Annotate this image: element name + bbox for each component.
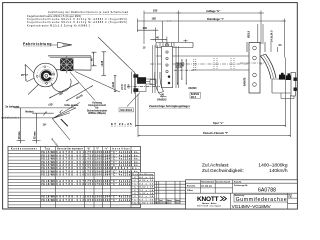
label 8A0623 [157, 92, 167, 102]
angle dimension 25deg [21, 64, 34, 82]
Bewegungsrichtung diagonal label [50, 119, 70, 157]
svg-text:≈135: ≈135 [100, 60, 104, 66]
svg-text:≈ 52 mm: ≈ 52 mm [33, 131, 36, 141]
title block small labels [187, 181, 293, 199]
revision table [154, 181, 185, 204]
dimension approx135 vertical [100, 52, 106, 76]
svg-text:Ø185: Ø185 [124, 83, 127, 90]
front view: axle tube band [37, 56, 92, 70]
wheel hub flange circle [34, 63, 58, 87]
vertical dim 24.5 rotated [263, 24, 274, 44]
table row lines [8, 151, 141, 205]
dimension 50x50 diagonal [66, 86, 93, 102]
travel diagram: loaded line [5, 105, 76, 109]
svg-text:8A0520: 8A0520 [189, 87, 198, 90]
svg-text:4.5J x 13: 4.5J x 13 [139, 179, 153, 182]
SH10991 label [119, 108, 134, 112]
svg-text:Zul.Gechwindigkeit:: Zul.Gechwindigkeit: [202, 168, 244, 174]
label 8A0520 small [189, 87, 198, 90]
wire hub lower leader [28, 85, 39, 95]
svg-text:Bearb.Anf.: Bearb.Anf. [187, 185, 196, 188]
svg-text:“C”: “C” [132, 199, 138, 201]
svg-text:8A0623: 8A0623 [157, 98, 167, 102]
svg-text:Ø18.5: Ø18.5 [247, 30, 251, 38]
Achtung note block [87, 101, 107, 115]
svg-text:133: 133 [143, 26, 148, 30]
svg-text:5.5J x 15: 5.5J x 15 [139, 203, 153, 205]
note block: bolt variants [27, 11, 129, 27]
svg-text:Spur “c”: Spur “c” [213, 121, 224, 125]
svg-text:Ø1.5: Ø1.5 [191, 97, 197, 99]
subtitle VG14MV-VG18MV [232, 204, 272, 209]
table data rows [41, 151, 139, 202]
svg-text:Zweireihige Schrägkugellager: Zweireihige Schrägkugellager [149, 104, 191, 108]
dimension Spur c [136, 121, 286, 126]
svg-text:“C”: “C” [132, 196, 138, 198]
travel diagram base ticks [17, 139, 41, 141]
dimension 40 [150, 35, 167, 40]
travel diagram rays and arcs [44, 102, 81, 126]
svg-text:1600: 1600 [95, 174, 103, 177]
svg-text:“C”: “C” [132, 203, 138, 205]
extension lines bottom dims [136, 58, 291, 138]
svg-text:≈ 90 mm: ≈ 90 mm [18, 131, 21, 141]
svg-text:bitte genau: bitte genau [65, 103, 79, 107]
svg-text:Gezeichn.Geprüft: Gezeichn.Geprüft [216, 181, 231, 184]
title block [186, 180, 298, 209]
svg-text:6A0788: 6A0788 [258, 187, 276, 193]
svg-text:Kopie-Nr.: Kopie-Nr. [234, 182, 242, 184]
svg-text:“b”: “b” [87, 148, 91, 150]
dimension 40 rear [160, 94, 167, 97]
title Gummifederachse [236, 197, 287, 203]
svg-text:“C”: “C” [132, 177, 138, 179]
angle 19 label [43, 123, 47, 127]
border frame [3, 3, 298, 209]
svg-text:Name: Name [175, 203, 180, 205]
main data table [8, 146, 141, 207]
svg-text:Gummifederachse: Gummifederachse [236, 197, 287, 203]
svg-text:1850: 1850 [85, 199, 94, 202]
travel diagram: unloaded line [2, 115, 54, 119]
side view part number rotated [244, 77, 247, 86]
wire SH10991 leader [127, 93, 140, 107]
svg-text:25°±7: 25°±7 [21, 73, 28, 77]
svg-text:1 Bl.: 1 Bl. [288, 197, 292, 199]
rear view mounting bracket plate [162, 46, 173, 87]
svg-text:280Nm (28kpm): 280Nm (28kpm) [88, 112, 106, 115]
svg-text:Rad: Rad [132, 174, 138, 176]
svg-text:Datum: Datum [166, 199, 172, 202]
dimension Flansch-Flansch f [138, 131, 291, 136]
svg-text:Zeichnungs-Nr.: Zeichnungs-Nr. [234, 185, 248, 187]
swing arm boss circle (front view) [52, 79, 72, 92]
svg-text:4J x 13: 4J x 13 [139, 176, 153, 179]
svg-text:24.5±14.5: 24.5±14.5 [270, 30, 274, 42]
svg-text:1464: 1464 [103, 199, 111, 202]
side view centerline [240, 62, 264, 64]
Fahrtrichtung label [23, 42, 52, 46]
extension lines top dims [137, 11, 284, 58]
drawing number label [234, 185, 248, 187]
KNOTT logo [197, 196, 227, 207]
ET 22-35 label [111, 122, 132, 126]
svg-text:6J x 14: 6J x 14 [139, 195, 153, 198]
svg-text:≈33°: ≈33° [48, 103, 53, 107]
svg-text:1400: 1400 [95, 199, 103, 202]
svg-text:Ausführung: Ausführung [139, 173, 153, 176]
svg-text:1684: 1684 [103, 174, 111, 177]
svg-text:SH10991: SH10991 [120, 109, 133, 112]
dimension 15 [143, 46, 146, 50]
travel diagram: Vorlast line [25, 110, 54, 114]
svg-text:97.09.19: 97.09.19 [201, 184, 212, 188]
svg-text:“C”: “C” [132, 183, 138, 185]
svg-text:Kundennummer: Kundennummer [11, 148, 37, 150]
rear view tube end lines [153, 45, 179, 93]
svg-text:1784: 1784 [103, 183, 111, 186]
svg-text:ø140: ø140 [112, 81, 115, 87]
Zul.Achslast note [202, 162, 288, 168]
hub rubber element ring [40, 69, 54, 82]
svg-text:Zul.Achslast:: Zul.Achslast: [202, 162, 229, 168]
table header text [11, 147, 130, 150]
title box [234, 194, 288, 202]
svg-text:2050: 2050 [85, 174, 94, 177]
svg-text:unbelasteten: unbelasteten [2, 115, 20, 119]
svg-text:Ø84: Ø84 [128, 83, 131, 88]
leader to section detail [75, 72, 120, 93]
dimension row 182 / Rohrlaenge l [138, 17, 287, 22]
svg-text:ET 22–35: ET 22–35 [111, 122, 132, 126]
svg-text:VG 18-WK: VG 18-WK [41, 199, 55, 202]
svg-text:1700: 1700 [95, 183, 103, 186]
rim sub-table text [132, 173, 153, 205]
svg-text:1400–1800kg: 1400–1800kg [258, 162, 287, 168]
right bracket top view [247, 42, 265, 52]
svg-text:Fahrtrichtung: Fahrtrichtung [23, 42, 52, 46]
svg-text:Zust: Zust [155, 202, 159, 205]
svg-text:“C”: “C” [132, 187, 138, 189]
svg-text:5J x 15: 5J x 15 [139, 199, 153, 201]
dimension 133 [137, 26, 158, 31]
leader wire from note block to wheel bolt detail [98, 37, 135, 73]
svg-text:Ausführung der Radbolzen/mutte: Ausführung der Radbolzen/muttern je nach… [48, 11, 129, 14]
svg-text:8A0520: 8A0520 [191, 93, 200, 96]
axle tube side span [150, 56, 262, 70]
svg-text:19°: 19° [43, 123, 47, 127]
svg-text:Datum: Datum [166, 202, 172, 205]
svg-text:5J x 14: 5J x 14 [139, 189, 153, 192]
side view swing arm [261, 54, 277, 79]
svg-text:“C”: “C” [132, 190, 138, 192]
svg-text:bereifbar: bereifbar [113, 148, 130, 150]
svg-text:“l”: “l” [96, 148, 99, 150]
dim approx 52 mm [33, 113, 36, 143]
svg-text:Rohrlänge “l”: Rohrlänge “l” [207, 17, 225, 21]
bitte genau label [65, 103, 79, 107]
svg-text:140km/h: 140km/h [269, 168, 288, 174]
svg-text:“C”: “C” [132, 193, 138, 195]
angle 33 label [48, 103, 53, 107]
svg-text:2150: 2150 [85, 183, 94, 186]
Zul.Gechwindigkeit note [202, 168, 288, 174]
svg-text:Typ.: Typ. [45, 148, 52, 150]
side view top dim 24 [271, 42, 282, 52]
date [201, 184, 212, 188]
label 8A0520 box [190, 92, 201, 99]
wheel bolt holes [36, 66, 55, 85]
drawing number 6A0788 [258, 187, 276, 193]
svg-text:Werkst.Bearbeit: Werkst.Bearbeit [201, 181, 214, 184]
svg-text:Herstellernummer: Herstellernummer [57, 147, 83, 150]
rotated dim stack rear view [176, 61, 185, 68]
left bracket top view [156, 40, 193, 48]
svg-text:M.Raue: M.Raue [187, 190, 193, 192]
table column lines [40, 146, 131, 207]
svg-text:4.5J x 14: 4.5J x 14 [139, 186, 153, 189]
svg-text:VG 18-WK: VG 18-WK [41, 183, 55, 186]
svg-text:Kegelschraube M12x1.5 Zchng Nr: Kegelschraube M12x1.5 Zchng Nr.A3886.2 [27, 24, 91, 27]
leader to Achtung note [70, 72, 95, 101]
axle tube square section (cross-hatched) [61, 56, 73, 73]
dimension row 225 / Auflage b [144, 9, 264, 14]
svg-text:8A0675: 8A0675 [244, 77, 247, 86]
svg-text:182: 182 [152, 17, 157, 21]
dimension 160 diagonal [49, 83, 79, 99]
svg-text:KNOTT GmbH · techn. Eggstätt: KNOTT GmbH · techn. Eggstätt [197, 204, 221, 207]
svg-text:225: 225 [153, 9, 158, 13]
svg-text:“s”: “s” [105, 148, 109, 150]
side view: mounting plate [249, 43, 260, 93]
rim sub-table [132, 172, 155, 204]
label Zweireihige Schraegkugellager [149, 104, 191, 108]
svg-text:Flansch–Flansch “f”: Flansch–Flansch “f” [203, 131, 229, 135]
section detail body [127, 72, 160, 94]
svg-text:VG14MV–VG18MV: VG14MV–VG18MV [232, 204, 272, 209]
svg-text:Auflage “b”: Auflage “b” [206, 9, 221, 13]
dimension 60 vertical [90, 52, 97, 66]
svg-text:“C”: “C” [132, 180, 138, 182]
rear view vertical dims [177, 59, 187, 85]
svg-text:Änd: Änd [159, 199, 162, 202]
revision table header text [155, 199, 180, 205]
side view stub axle assembly [272, 73, 297, 99]
vertical dim phi18.5 rotated [247, 24, 258, 44]
svg-text:5.5J x 14: 5.5J x 14 [139, 192, 153, 195]
svg-text:5J x 13: 5J x 13 [139, 183, 153, 185]
svg-text:Ø84: Ø84 [182, 61, 185, 66]
svg-text:VG 15-WK: VG 15-WK [41, 174, 55, 177]
section detail rotated dims [121, 83, 131, 90]
rear view swing arm [155, 72, 164, 93]
Fahrtrichtung arrow [52, 42, 72, 48]
dim approx 90 mm [18, 108, 21, 143]
section detail: hub/bearing cross-section [112, 76, 116, 92]
